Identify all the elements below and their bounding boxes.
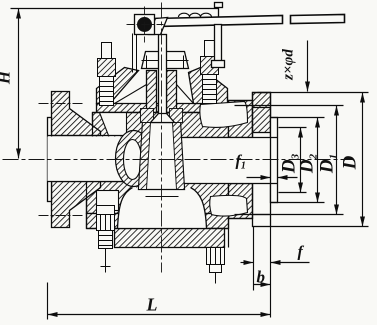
dimension D3 bbox=[279, 127, 307, 129]
washer line under plug bbox=[146, 196, 179, 198]
bonnet flange plate bbox=[97, 104, 228, 113]
left flange raised face bbox=[48, 118, 52, 202]
svg-text:b: b bbox=[257, 268, 266, 287]
dimension D bbox=[258, 92, 369, 94]
svg-text:D: D bbox=[340, 155, 361, 170]
plug (tapered cock) bbox=[139, 123, 185, 190]
svg-text:H: H bbox=[0, 70, 14, 85]
plug top seal ring right bbox=[170, 109, 183, 123]
right flange inner lines bbox=[253, 108, 278, 215]
raised face of right flange bbox=[271, 118, 278, 203]
gland boss left column bbox=[147, 71, 157, 113]
body outer outline bbox=[87, 94, 253, 248]
body mid band left of bore bbox=[93, 113, 229, 138]
port seat ring (inner passage) bbox=[124, 140, 142, 180]
body cavity pocket upper-right bbox=[200, 102, 248, 128]
right flange ring (upper part sectioned) bbox=[253, 93, 271, 133]
left flange lower bolt-hole centerline bbox=[39, 215, 85, 217]
dimension H bbox=[18, 9, 20, 159]
bonnet left lobe bbox=[97, 68, 139, 104]
plug top seal ring left bbox=[141, 109, 154, 123]
vertical stem centerline bbox=[161, 3, 163, 273]
lever handle bar bbox=[155, 16, 283, 27]
dimension H extension top bbox=[11, 8, 219, 10]
right bore (white) bbox=[185, 138, 271, 184]
lever grip bumps bbox=[179, 13, 212, 17]
top right bonnet bolt bbox=[201, 41, 219, 104]
left flange lower section with hub bbox=[52, 182, 101, 228]
gland boss right column bbox=[167, 71, 177, 113]
dimension b outside arrow left bbox=[241, 262, 254, 264]
lever handle far segment bbox=[291, 15, 345, 24]
stem head vertical centerline bbox=[144, 7, 146, 43]
bottom cover plate bbox=[115, 229, 225, 248]
bottom right bolt bbox=[207, 248, 225, 284]
stem square head bbox=[135, 15, 155, 35]
dimension b bbox=[253, 227, 255, 291]
left bore (white) bbox=[48, 137, 142, 182]
port seat ring (outer) bbox=[116, 131, 152, 187]
body lower band bbox=[87, 182, 229, 214]
svg-text:z×φd: z×φd bbox=[281, 49, 297, 81]
body cavity pocket lower-right bbox=[210, 195, 248, 216]
latch bolt bbox=[215, 3, 223, 8]
lever bend bbox=[149, 18, 168, 35]
stem bbox=[159, 35, 167, 115]
centerlines bbox=[3, 3, 353, 273]
dimension D1 bbox=[235, 105, 344, 107]
top left bonnet bolt bbox=[98, 43, 116, 106]
plug right wall hatched bbox=[173, 123, 185, 190]
stem to plug cone bbox=[151, 114, 175, 123]
bottom left bolt bbox=[97, 206, 115, 273]
z x phi d leader bbox=[307, 41, 309, 92]
body bottom band bbox=[87, 214, 229, 229]
bore outline lines bbox=[48, 136, 278, 184]
right flange outline bbox=[253, 93, 271, 227]
body neck upper right bbox=[229, 101, 253, 138]
body cavity pocket lower-left bbox=[97, 191, 119, 211]
dimension L bbox=[47, 283, 49, 320]
left flange upper bolt-hole centerline bbox=[39, 103, 85, 105]
body cavity pocket upper-left bbox=[100, 113, 127, 136]
dimension D2 bbox=[271, 117, 325, 119]
left flange upper section with hub bbox=[52, 92, 101, 136]
bonnet slope lines bbox=[115, 85, 194, 104]
gland ear bolts bbox=[142, 56, 189, 69]
horizontal pipe centerline bbox=[3, 159, 353, 161]
gland flange bbox=[142, 52, 189, 69]
svg-text:L: L bbox=[146, 295, 158, 315]
stem nut (dark) bbox=[137, 17, 152, 32]
plug left wall hatched bbox=[139, 123, 151, 190]
body neck lower right bbox=[229, 184, 253, 219]
bonnet right lobe bbox=[189, 68, 228, 104]
lever stop plate bbox=[133, 34, 137, 73]
dimension f arrow bbox=[271, 262, 310, 264]
plug chamber dome (white) bbox=[118, 188, 207, 229]
stem head horizontal centerline bbox=[127, 24, 164, 26]
dimension f1 arrows bbox=[247, 177, 271, 179]
